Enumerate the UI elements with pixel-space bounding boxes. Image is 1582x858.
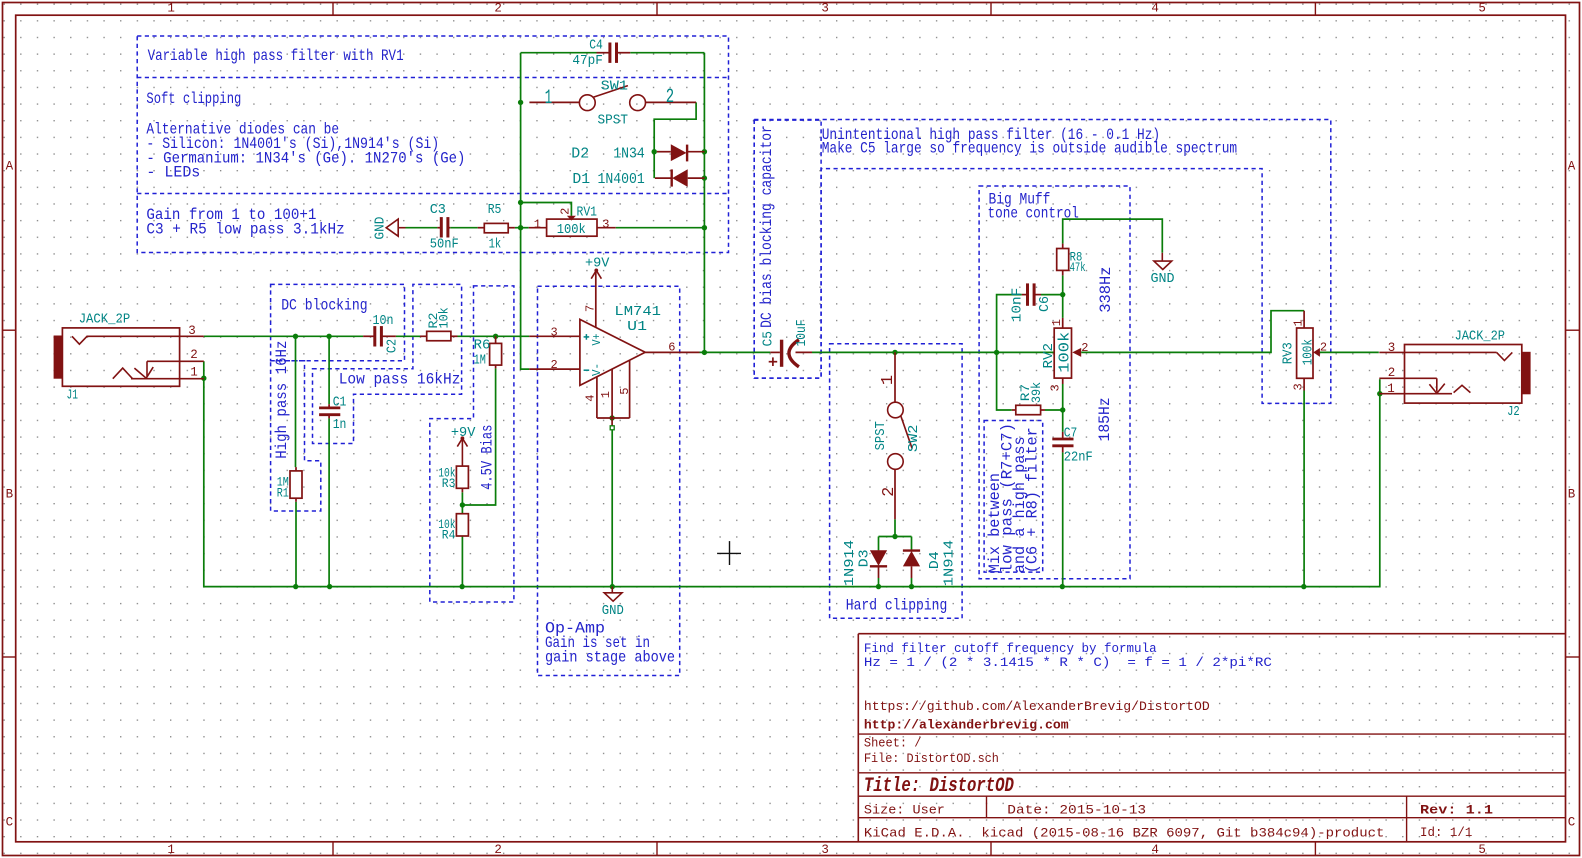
svg-text:SW1: SW1: [601, 79, 628, 94]
wire RV1 pin3 to feedback: [616, 227, 705, 229]
svg-text:SPST: SPST: [874, 421, 889, 450]
wire opamp output row: [700, 351, 771, 353]
svg-text:C2: C2: [386, 339, 401, 353]
svg-text:http://alexanderbrevig.com: http://alexanderbrevig.com: [864, 718, 1069, 733]
capacitor C5 polarized: [770, 351, 780, 353]
ground GND at tone control: [1161, 253, 1163, 261]
svg-text:6: 6: [668, 340, 675, 354]
note box: DC bias blocking capacitor: [754, 120, 821, 378]
diode D3: [878, 550, 880, 553]
svg-text:R6: R6: [474, 339, 491, 354]
wire RV2 wiper to RV3: [1081, 311, 1304, 353]
junction main row R1: [293, 334, 298, 339]
note box: high pass 16Hz: [271, 361, 321, 511]
note box: DC blocking: [271, 284, 405, 360]
svg-text:1N34: 1N34: [613, 146, 645, 163]
junction bus R4: [459, 584, 464, 589]
junction bus C1: [327, 584, 332, 589]
junction bias divider mid: [460, 502, 465, 507]
sheet center cross: [717, 552, 741, 554]
potentiometer RV1 pin 3: [597, 227, 616, 229]
connector J2 pin 3 / tip contact: [1379, 351, 1496, 353]
column ticks: [332, 3, 334, 16]
power +9V at U1: [594, 269, 598, 273]
op-amp U1 triangle: [580, 319, 645, 385]
switch SW1: [529, 101, 579, 103]
junction opamp pins bar: [609, 415, 614, 420]
svg-text:1M: 1M: [474, 354, 486, 369]
wire J1 ground drop: [204, 361, 1380, 586]
svg-text:File: DistortOD.sch: File: DistortOD.sch: [864, 752, 999, 766]
diode D1: [655, 177, 672, 179]
junction bus RV3: [1301, 584, 1306, 589]
svg-text:2: 2: [558, 208, 572, 215]
svg-text:Rev: 1.1: Rev: 1.1: [1420, 803, 1493, 818]
svg-text:100k: 100k: [1301, 339, 1316, 365]
capacitor C4: [608, 43, 611, 63]
svg-text:C5: C5: [761, 331, 776, 347]
svg-text:1N4001: 1N4001: [598, 171, 645, 188]
wire feedback rail right: [703, 53, 705, 353]
svg-text:Hz = 1 / (2 * 3.1415 * R * C): Hz = 1 / (2 * 3.1415 * R * C) = f = 1 / …: [864, 656, 1272, 670]
svg-text:RV2: RV2: [1042, 343, 1057, 369]
svg-text:50nF: 50nF: [430, 238, 459, 253]
svg-text:D3: D3: [858, 549, 873, 567]
svg-text:47pF: 47pF: [572, 54, 602, 69]
wire R3-R4 bias chain: [461, 492, 463, 513]
svg-text:1k: 1k: [489, 238, 502, 253]
wire SW1 output loop: [654, 102, 696, 178]
svg-text:1: 1: [1292, 319, 1306, 326]
potentiometer RV3 pin 1: [1303, 311, 1305, 328]
junction rail RV1 pin1: [518, 225, 523, 230]
note box: op-amp: [538, 286, 680, 675]
svg-text:2: 2: [494, 2, 502, 16]
switch SW2: [894, 352, 896, 402]
potentiometer RV1 body: [547, 219, 597, 236]
svg-text:47k: 47k: [1070, 261, 1086, 275]
svg-text:1: 1: [534, 218, 541, 232]
svg-text:D2: D2: [571, 146, 589, 163]
ground GND at C3 (left): [386, 219, 398, 236]
capacitor C3: [440, 217, 443, 237]
svg-text:Size: User: Size: User: [864, 803, 945, 818]
op-amp U1 unconnected pin square: [610, 426, 614, 430]
junction main row R6: [493, 334, 498, 339]
svg-text:RV1: RV1: [577, 205, 598, 220]
wire SW2 to diodes: [894, 519, 896, 536]
svg-text:B: B: [6, 488, 14, 502]
op-amp U1 plus/minus markers: [584, 336, 590, 338]
potentiometer RV2 pin 3: [1062, 378, 1064, 384]
svg-text:4.5V Bias: 4.5V Bias: [478, 425, 496, 490]
svg-text:100k: 100k: [557, 223, 586, 238]
svg-text:2: 2: [190, 348, 198, 362]
potentiometer RV2 body: [1054, 328, 1071, 378]
svg-text:1N914: 1N914: [843, 540, 858, 586]
junction J1 pins: [201, 376, 206, 381]
wire R6 to bias divider: [462, 368, 495, 505]
wire diodes to ground bus: [878, 578, 880, 587]
svg-text:5: 5: [618, 387, 632, 394]
wire R5 to RV1: [515, 227, 529, 229]
svg-text:+9V: +9V: [585, 257, 610, 272]
resistor R2: [427, 331, 451, 340]
svg-text:A: A: [6, 160, 14, 174]
svg-text:2: 2: [666, 86, 674, 109]
op-amp U1 pins 4/1/5: [596, 377, 598, 418]
svg-text:4: 4: [583, 394, 597, 401]
svg-text:Low pass 16kHz: Low pass 16kHz: [339, 370, 461, 388]
wire RV3 pin3 to ground bus: [1303, 391, 1305, 587]
capacitor C5 plus mark: [769, 361, 778, 363]
wire opamp ground: [611, 430, 613, 587]
junction RV1 pin3 rail: [702, 225, 707, 230]
junction bus D3: [876, 584, 881, 589]
junction bus GND: [610, 584, 615, 589]
svg-text:Hard clipping: Hard clipping: [846, 597, 948, 615]
svg-text:KiCad E.D.A. kicad (2015-08-1: KiCad E.D.A. kicad (2015-08-16 BZR 6097,…: [864, 826, 1385, 841]
svg-text:Date: 2015-10-13: Date: 2015-10-13: [1007, 803, 1146, 818]
svg-text:RV3: RV3: [1282, 342, 1297, 364]
note box: mix between filters: [984, 421, 1043, 573]
svg-text:DC bias blocking capacitor: DC bias blocking capacitor: [758, 125, 776, 328]
connector J1 tip contact: [72, 336, 204, 344]
note box: unintentional high pass filter: [754, 120, 1331, 404]
svg-text:22nF: 22nF: [1064, 450, 1093, 465]
svg-text:D4: D4: [928, 551, 943, 569]
wire opamp feedback rail left: [521, 53, 530, 369]
wire RV2 pin1: [1062, 295, 1064, 318]
connector J2 pin 2 / ring contact: [1379, 377, 1437, 379]
svg-text:(C6 + R8) filter: (C6 + R8) filter: [1024, 427, 1042, 573]
capacitor C1: [319, 406, 340, 409]
svg-text:D1: D1: [572, 171, 590, 188]
potentiometer RV2 pin 1: [1062, 318, 1064, 328]
capacitor C7: [1052, 438, 1073, 441]
svg-text:C7: C7: [1064, 427, 1078, 442]
svg-text:2: 2: [880, 487, 899, 497]
svg-text:GND: GND: [602, 604, 624, 619]
svg-text:https://github.com/AlexanderBr: https://github.com/AlexanderBrevig/Disto…: [864, 699, 1210, 714]
junction J2 pins: [1377, 391, 1382, 396]
wire C5 to RV2: [812, 351, 1054, 353]
svg-text:1: 1: [190, 366, 198, 380]
svg-text:R3: R3: [442, 477, 456, 491]
wire C1 branch: [328, 336, 330, 404]
svg-text:GND: GND: [373, 217, 388, 240]
wire R8 to node: [1062, 275, 1064, 294]
junction rail SW1: [518, 100, 523, 105]
capacitor C6: [1026, 283, 1029, 305]
resistor R5: [484, 223, 508, 232]
svg-text:2: 2: [1388, 366, 1396, 380]
resistor R4: [456, 514, 468, 536]
connector J2 body: [1405, 345, 1522, 404]
junction D2 left: [652, 149, 657, 154]
svg-text:1: 1: [879, 375, 898, 385]
svg-text:Make C5 large so frequency is: Make C5 large so frequency is outside au…: [822, 140, 1237, 158]
svg-text:3: 3: [188, 324, 196, 338]
svg-text:3: 3: [1388, 341, 1396, 355]
wire RV1 wiper: [521, 203, 572, 216]
title block frame: [857, 634, 859, 842]
svg-text:V+: V+: [590, 334, 604, 346]
svg-text:2: 2: [1081, 341, 1088, 355]
svg-text:High pass 16Hz: High pass 16Hz: [273, 341, 291, 459]
junction D1 right: [702, 175, 707, 180]
wire RV3 wiper to J2: [1319, 351, 1379, 353]
junction bus R1: [293, 584, 298, 589]
resistor R7: [1016, 405, 1041, 414]
svg-text:A: A: [1568, 160, 1576, 174]
svg-text:10n: 10n: [373, 314, 394, 329]
note box: 4.5V bias: [430, 286, 514, 602]
junction SW2 diodes: [892, 534, 897, 539]
connector J1 ring contact: [147, 360, 204, 362]
junction output node: [702, 350, 707, 355]
svg-text:39k: 39k: [1030, 382, 1044, 403]
diode D2: [657, 151, 671, 153]
svg-text:4: 4: [1151, 843, 1159, 857]
svg-text:100k: 100k: [1057, 332, 1074, 373]
svg-text:C1: C1: [333, 395, 347, 410]
svg-text:185Hz: 185Hz: [1096, 397, 1114, 441]
wire main input row: [204, 335, 363, 337]
svg-text:Id: 1/1: Id: 1/1: [1420, 825, 1472, 840]
potentiometer RV2 wiper arrow: [1072, 348, 1081, 357]
svg-text:C3: C3: [430, 203, 446, 218]
junction main row C1: [326, 334, 331, 339]
row ticks: [3, 329, 16, 331]
wire C4 top: [521, 52, 597, 54]
svg-text:1N914: 1N914: [943, 540, 958, 586]
note box: big muff tone control: [979, 186, 1130, 579]
diode D4: [911, 549, 913, 552]
svg-text:Sheet: /: Sheet: /: [864, 737, 922, 751]
potentiometer RV1 pin 1: [529, 227, 547, 229]
resistor R3: [456, 466, 468, 488]
svg-text:3: 3: [821, 2, 829, 16]
svg-text:B: B: [1568, 488, 1576, 502]
junction D2 right: [702, 149, 707, 154]
svg-text:1: 1: [1050, 319, 1064, 326]
junction rail RV1 wiper: [518, 200, 523, 205]
op-amp U1 pin 3 input: [529, 335, 580, 337]
svg-text:R1: R1: [277, 486, 289, 500]
junction tone rail: [994, 350, 999, 355]
svg-text:- LEDs: - LEDs: [146, 163, 200, 181]
svg-text:1: 1: [599, 391, 613, 398]
wire GND to C3: [406, 227, 438, 229]
connector J2 pin 1 contact: [1379, 393, 1452, 395]
junction bus C7: [1060, 584, 1065, 589]
note box: variable high pass / soft clipping / gain: [137, 36, 728, 253]
svg-text:10uF: 10uF: [795, 320, 810, 347]
svg-text:3: 3: [551, 325, 558, 339]
op-amp U1 pin 7 power: [595, 272, 597, 328]
resistor R6: [490, 343, 502, 365]
svg-text:SPST: SPST: [598, 114, 629, 129]
op-amp U1 pin 6 output: [645, 351, 699, 353]
svg-text:2: 2: [1320, 341, 1327, 355]
note box: hard clipping: [830, 344, 963, 619]
svg-text:7: 7: [583, 305, 597, 312]
potentiometer RV3 wiper arrow: [1313, 348, 1320, 357]
svg-text:J1: J1: [67, 389, 79, 404]
power +9V at R3: [461, 436, 465, 440]
svg-text:C4: C4: [589, 39, 603, 54]
capacitor C2: [373, 326, 376, 346]
svg-text:1: 1: [167, 2, 175, 16]
svg-text:3: 3: [1292, 383, 1306, 390]
wire J2 pin jumper: [1379, 379, 1381, 394]
svg-text:3: 3: [821, 843, 829, 857]
wire RV2 pin3 node: [1062, 384, 1064, 410]
wire tone control top: [1063, 219, 1163, 253]
wire C3 to R5: [450, 227, 478, 229]
resistor R1: [290, 471, 302, 498]
svg-text:Title: DistortOD: Title: DistortOD: [864, 775, 1014, 798]
wire diode bar: [879, 536, 912, 538]
svg-text:GND: GND: [1151, 272, 1175, 287]
svg-text:1: 1: [1387, 382, 1395, 396]
svg-text:1: 1: [167, 843, 175, 857]
svg-text:3: 3: [1049, 384, 1063, 391]
connector J1 body: [62, 328, 179, 386]
svg-text:J2: J2: [1507, 405, 1520, 420]
svg-text:V-: V-: [590, 363, 604, 376]
svg-text:gain stage above: gain stage above: [545, 649, 675, 667]
wire R1 branch: [295, 336, 297, 467]
junction SW2 top: [892, 350, 897, 355]
svg-text:4: 4: [1151, 2, 1159, 16]
potentiometer RV3 pin 3: [1303, 378, 1305, 390]
svg-text:JACK_2P: JACK_2P: [1455, 330, 1505, 345]
svg-text:5: 5: [1478, 843, 1486, 857]
svg-text:5: 5: [1478, 2, 1486, 16]
svg-text:JACK_2P: JACK_2P: [79, 312, 131, 327]
svg-text:10nF: 10nF: [1011, 288, 1026, 323]
junction RV2 pin3/R7/C7 node: [1060, 407, 1065, 412]
op-amp U1 pin 2 input: [529, 368, 580, 370]
svg-text:2: 2: [551, 358, 558, 372]
svg-text:+9V: +9V: [451, 426, 476, 441]
svg-text:C: C: [1568, 816, 1576, 830]
junction bus D4: [909, 584, 914, 589]
wire C7 to ground bus: [1062, 410, 1064, 432]
potentiometer RV1 wiper arrow: [567, 216, 576, 221]
ground GND below U1: [611, 587, 613, 593]
svg-text:R4: R4: [442, 529, 456, 543]
resistor R8: [1057, 249, 1069, 271]
svg-text:2: 2: [494, 843, 502, 857]
svg-text:1: 1: [545, 87, 552, 110]
svg-text:DC blocking: DC blocking: [281, 297, 367, 315]
potentiometer RV3 body: [1297, 328, 1313, 378]
svg-text:R5: R5: [488, 203, 502, 218]
svg-text:Variable high pass filter with: Variable high pass filter with RV1: [148, 47, 404, 65]
svg-text:U1: U1: [627, 319, 647, 335]
svg-text:C: C: [6, 816, 14, 830]
note box: low pass 16kHz: [313, 284, 462, 443]
svg-text:C6: C6: [1038, 296, 1053, 312]
svg-text:338Hz: 338Hz: [1097, 267, 1115, 313]
wire C6 left rail: [997, 295, 1022, 410]
svg-text:10k: 10k: [437, 307, 451, 328]
wire C6 right: [1041, 294, 1063, 296]
svg-text:C3 + R5 low pass 3.1kHz: C3 + R5 low pass 3.1kHz: [146, 221, 344, 239]
svg-text:Soft clipping: Soft clipping: [146, 90, 241, 108]
svg-text:3: 3: [602, 218, 609, 232]
svg-text:Find filter cutoff frequency b: Find filter cutoff frequency by formula: [864, 642, 1157, 656]
svg-text:1n: 1n: [333, 418, 347, 433]
svg-text:LM741: LM741: [614, 304, 661, 320]
svg-text:SW2: SW2: [907, 425, 922, 453]
junction C6/R8 node: [1060, 292, 1065, 297]
